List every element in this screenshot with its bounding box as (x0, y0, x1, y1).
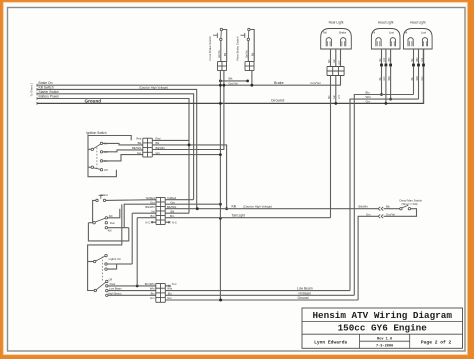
wire rear light ground pin (335, 49, 337, 67)
wire High Beam to connector (108, 294, 156, 296)
svg-text:Grn/Yel: Grn/Yel (386, 212, 395, 216)
wire start button left common (93, 200, 96, 222)
wire Grn row to ground vertical (165, 203, 220, 205)
switch Lights On (94, 260, 96, 262)
svg-text:Blk: Blk (138, 141, 142, 145)
wire lights common rail (88, 204, 122, 290)
wire HL2 pin Grn (423, 66, 425, 103)
svg-text:7-3-2000: 7-3-2000 (376, 344, 393, 348)
svg-text:Tail Light: Tail Light (232, 213, 245, 217)
svg-text:Off: Off (104, 168, 108, 172)
svg-text:Front Brake Switch: Front Brake Switch (208, 36, 212, 61)
wire Blu line (354, 95, 413, 296)
svg-text:Ground: Ground (271, 98, 284, 103)
wire rear light brake pin (340, 49, 342, 67)
wire Blk/Wht row to front brake switch (152, 71, 224, 150)
svg-text:Hensim ATV Wiring Diagram: Hensim ATV Wiring Diagram (312, 310, 452, 321)
wire kill1 to Blk/Wht row (108, 209, 120, 218)
svg-text:Blk/Wht: Blk/Wht (145, 205, 155, 209)
wire grn to ground (358, 216, 378, 300)
wire Grn to ground vertical (152, 154, 220, 156)
svg-text:Grn: Grn (333, 58, 336, 63)
wire Wht line (350, 99, 419, 291)
svg-text:Lights On: Lights On (109, 257, 122, 261)
svg-text:Blk/Wht: Blk/Wht (359, 204, 369, 208)
svg-text:Ground: Ground (298, 296, 309, 300)
svg-text:(Short = Kill): (Short = Kill) (402, 202, 418, 206)
svg-text:Grn/Yel: Grn/Yel (246, 50, 249, 58)
svg-text:Ignition Switch: Ignition Switch (86, 131, 107, 135)
svg-text:Head Light: Head Light (378, 21, 394, 25)
svg-text:Brake: Brake (339, 31, 347, 35)
wire Blk row to kill line (152, 145, 226, 209)
svg-text:Hi: Hi (405, 31, 408, 35)
wire HL1 pin to Blu line (381, 66, 383, 94)
svg-text:Kill Switch: Kill Switch (39, 85, 54, 89)
switch Dead Man (400, 208, 402, 210)
wire ignition Blk/Wht contact (103, 150, 143, 152)
wire tail drop to tail line (330, 76, 332, 218)
svg-text:Low: Low (421, 31, 426, 35)
title block (302, 308, 463, 348)
svg-text:Grn: Grn (366, 99, 371, 103)
wire bottom Ground line (165, 299, 358, 301)
svg-text:Grn: Grn (366, 212, 371, 216)
svg-text:Kill: Kill (232, 204, 237, 208)
svg-text:Grn/Yel: Grn/Yel (218, 50, 221, 58)
svg-text:Tail: Tail (323, 31, 327, 35)
wire Low Beam line (165, 290, 350, 292)
svg-text:Blk: Blk (386, 204, 390, 208)
svg-text:Blk/Wht: Blk/Wht (132, 146, 142, 150)
svg-text:Hi: Hi (373, 31, 376, 35)
svg-text:Wht: Wht (366, 95, 371, 99)
connector ignition switch (142, 138, 144, 157)
svg-text:Brake On: Brake On (39, 81, 53, 85)
wire Battery-Power bus (37, 99, 189, 214)
svg-text:Wht: Wht (150, 287, 155, 291)
svg-text:N-C: N-C (172, 221, 177, 225)
wire Park to connector (108, 285, 156, 287)
wire Kill-Switch bus (37, 89, 197, 208)
wire Blk jumper between brake switches (220, 80, 247, 82)
svg-text:G/Y: G/Y (338, 94, 341, 99)
wire rear brake to brake line (251, 71, 253, 86)
connector inline blk/wht (378, 207, 383, 211)
svg-text:N-C: N-C (145, 221, 150, 225)
switch beam select Off/Park/Low/High (94, 289, 96, 291)
svg-text:Ground: Ground (85, 98, 102, 103)
svg-text:Grn: Grn (137, 151, 142, 155)
svg-text:Grn: Grn (383, 57, 386, 62)
svg-text:N-C: N-C (172, 282, 177, 286)
wire HL2 pin Wht (418, 66, 420, 99)
connector head light 1 pins (381, 49, 383, 64)
wire Tail Light line (165, 217, 330, 219)
svg-text:Rear Light: Rear Light (329, 21, 344, 25)
wire Brn drop to park row (136, 218, 138, 286)
svg-text:Grn/Yel: Grn/Yel (229, 81, 239, 85)
wire run pivot stub (88, 222, 93, 224)
svg-text:(Caution High Voltage): (Caution High Voltage) (243, 204, 272, 208)
svg-text:150cc GY6 Engine: 150cc GY6 Engine (338, 323, 428, 334)
bus end ticks (36, 84, 38, 87)
svg-text:Brn: Brn (328, 95, 331, 99)
wire ignition Grn contact (103, 155, 143, 161)
svg-text:Brake: Brake (274, 81, 284, 85)
connector rear light (326, 67, 328, 76)
wire Kill Blk/Wht line (165, 208, 378, 210)
wire Grn row to kill2 drop (124, 204, 156, 228)
svg-text:Low: Low (389, 31, 394, 35)
wire HL2 pin Blu (413, 66, 415, 94)
svg-text:Kill: Kill (108, 228, 112, 232)
wire Low Beam to connector (108, 290, 156, 292)
wire Starter-Switch bus (37, 94, 194, 200)
wire rear light tail pin (330, 49, 332, 67)
svg-text:Brn/Wht: Brn/Wht (145, 282, 155, 286)
wire Blk row to battery vertical (165, 212, 189, 214)
stub N-C right (165, 221, 169, 223)
svg-text:Rear Brake Switch: Rear Brake Switch (236, 36, 240, 60)
svg-text:(Caution High Voltage): (Caution High Voltage) (139, 85, 168, 89)
wire HL1 pin to Wht line (390, 66, 392, 99)
wire brake drop rear light (340, 76, 342, 86)
svg-text:Grn/Yel: Grn/Yel (311, 81, 321, 85)
svg-text:Battery Power: Battery Power (39, 94, 61, 98)
wire deadman return (384, 209, 417, 217)
connector headlight harness (155, 284, 157, 303)
wire ground drop rear light (335, 76, 337, 104)
wire HL1 pin to ground line (385, 66, 387, 103)
wire ground drop from front brake switch (219, 71, 221, 301)
svg-text:Red: Red (136, 137, 141, 141)
wire Yel/Red to starter bus (165, 199, 193, 201)
switch Kill/Run/Kill (93, 222, 95, 224)
svg-text:Lynn Edwards: Lynn Edwards (314, 340, 347, 346)
connector head light 2 pins (413, 49, 415, 64)
wire ignition Blk contact (103, 143, 143, 145)
svg-text:Rev 1.0: Rev 1.0 (377, 338, 392, 342)
wire Brake-On bus (37, 84, 341, 86)
svg-text:Wht: Wht (416, 57, 419, 62)
svg-text:Wht: Wht (388, 57, 391, 62)
stub N-C left (152, 221, 156, 223)
svg-text:Run: Run (110, 221, 115, 225)
svg-text:Starter Switch: Starter Switch (39, 90, 60, 94)
connector inline grn (378, 214, 383, 218)
svg-text:Blu: Blu (151, 291, 155, 295)
svg-text:Blk: Blk (229, 76, 233, 80)
wire Red to battery bus (152, 139, 189, 141)
svg-text:Grn: Grn (150, 296, 155, 300)
wire start button right (106, 199, 156, 202)
svg-text:Page 2 of 2: Page 2 of 2 (421, 340, 452, 346)
svg-text:Head Light: Head Light (410, 21, 426, 25)
svg-text:Off: Off (109, 278, 113, 282)
wire Hi Beam line (165, 294, 354, 296)
wire lights-on bracket (107, 264, 116, 269)
wire kill2 contact (108, 227, 129, 229)
svg-text:Brn: Brn (328, 59, 331, 63)
wire blk to deadman (384, 208, 400, 210)
stub N-C bottom (165, 285, 169, 287)
wire kill-run return rail (88, 223, 128, 241)
svg-text:Grn: Grn (421, 57, 424, 62)
wire Ground bus (37, 49, 424, 103)
connector handlebar controls (155, 198, 157, 225)
svg-text:To Sheet 1: To Sheet 1 (30, 83, 34, 97)
coupling dashed link (101, 257, 103, 282)
svg-text:Hi Beam: Hi Beam (299, 291, 312, 295)
svg-text:G/Y: G/Y (338, 60, 341, 65)
svg-text:Grn: Grn (333, 94, 336, 99)
wire Yel row to lights-on (131, 213, 133, 264)
svg-text:Low Beam: Low Beam (297, 287, 313, 291)
svg-text:Blu: Blu (366, 90, 370, 94)
